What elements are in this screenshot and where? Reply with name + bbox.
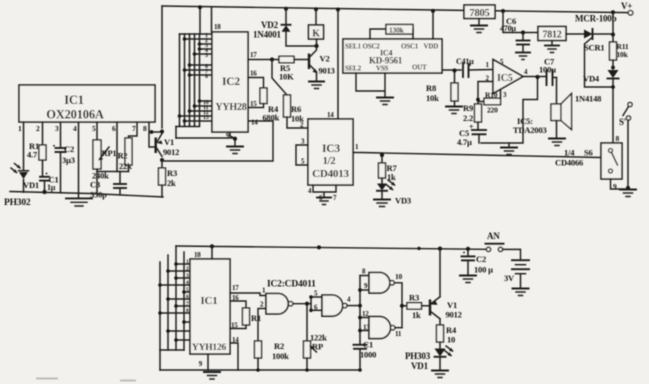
svg-text:3: 3 xyxy=(55,124,59,133)
svg-text:15: 15 xyxy=(250,100,257,108)
wire IC1 pin6 to RC node xyxy=(116,122,118,172)
wire IC1 pin8 to V1 base xyxy=(149,122,155,147)
svg-text:8: 8 xyxy=(616,134,620,143)
IC1 YYH126 (bottom) xyxy=(190,259,230,354)
svg-text:IC1: IC1 xyxy=(64,93,84,107)
resistor R6 10k xyxy=(272,60,308,129)
wire IC1 pin2 to R1 xyxy=(42,122,44,145)
node ties xyxy=(358,288,362,292)
svg-text:S6: S6 xyxy=(584,148,593,158)
wire IC1 pin 14 to ground rail xyxy=(230,343,238,370)
resistor R10 220 xyxy=(478,91,501,115)
svg-text:7812: 7812 xyxy=(542,30,561,41)
gate4 inputs xyxy=(360,310,370,332)
capacitor C3 330p xyxy=(90,172,126,200)
regulator 7805 xyxy=(464,5,495,33)
svg-text:R8: R8 xyxy=(426,83,436,93)
pin numbers of IC1 left (bottom) xyxy=(186,259,189,314)
ground under IC4 VSS xyxy=(377,98,393,105)
wire IC5 pin 2 to R9/R10 node xyxy=(478,82,493,105)
svg-text:K: K xyxy=(312,29,320,40)
svg-text:CD4066: CD4066 xyxy=(555,158,583,168)
svg-text:9012: 9012 xyxy=(163,147,179,157)
pin 3 of IC5 xyxy=(501,90,508,100)
svg-text:R2: R2 xyxy=(118,151,128,161)
node supply/R11 junction xyxy=(611,10,615,14)
svg-text:9013: 9013 xyxy=(319,66,335,76)
ground under R8 xyxy=(446,107,462,114)
svg-text:10k: 10k xyxy=(426,93,439,103)
svg-text:R3: R3 xyxy=(167,168,177,178)
ground on bootstrap line xyxy=(501,143,517,155)
node supply/relay K junction xyxy=(314,7,318,11)
transistor V1 9012 (top circuit) xyxy=(150,130,180,157)
transistor V2 9013 xyxy=(308,46,335,81)
IC3 1/2 CD4013 xyxy=(308,119,353,185)
NAND gate 3 xyxy=(369,273,394,294)
svg-text:220: 220 xyxy=(487,106,498,115)
svg-text:8: 8 xyxy=(186,308,189,314)
node V1 collector feed xyxy=(438,247,442,251)
svg-text:1000: 1000 xyxy=(360,350,376,360)
IC1 OX20106A xyxy=(19,85,155,122)
ground at S6 return xyxy=(620,190,636,197)
node on supply rail right xyxy=(417,247,420,250)
svg-text:S′: S′ xyxy=(619,117,626,127)
svg-text:1µ: 1µ xyxy=(47,183,56,192)
ground rail (bottom circuit) xyxy=(160,369,360,371)
capacitor C6 470u xyxy=(500,16,530,60)
IC1 left pin stubs (bottom) xyxy=(158,262,190,342)
svg-text:4.7: 4.7 xyxy=(27,150,38,160)
svg-text:17: 17 xyxy=(232,284,239,292)
capacitor C2 100u (bottom) xyxy=(460,249,493,283)
resistor R4 10 (bottom) xyxy=(437,325,457,348)
svg-text:7: 7 xyxy=(132,124,136,133)
svg-text:1N4148: 1N4148 xyxy=(575,94,601,104)
wire IC1 pin3 to C2 xyxy=(60,122,62,147)
svg-text:6: 6 xyxy=(186,294,189,300)
svg-text:10: 10 xyxy=(395,272,403,281)
svg-text:R10: R10 xyxy=(485,91,498,100)
bus lines left of IC2 xyxy=(176,34,212,138)
svg-text:PH302: PH302 xyxy=(4,198,31,208)
svg-text:V1: V1 xyxy=(164,137,174,147)
svg-text:OUT: OUT xyxy=(412,64,427,72)
node C6 junction xyxy=(521,30,525,34)
wire emitter net to IC2 pin 14 xyxy=(162,121,273,161)
node K/V2 collector junction xyxy=(314,44,318,48)
svg-text:8: 8 xyxy=(205,74,208,80)
svg-text:SEL1: SEL1 xyxy=(345,43,362,51)
node R3 takeoff xyxy=(400,304,404,308)
wire IC4 VDD to supply xyxy=(432,11,434,39)
LED VD3 xyxy=(377,178,411,206)
resistor R3 2k (top circuit) xyxy=(159,168,178,197)
wire IC5 output bootstrap return xyxy=(481,77,538,143)
wire IC2 pin 17 to R5 xyxy=(248,59,279,61)
wire gate2 output to gates 3/4 xyxy=(347,305,360,307)
IC3 bottom pins 4,6,7 to ground xyxy=(308,185,337,205)
node V1 emitter xyxy=(160,158,164,162)
svg-text:OSC1: OSC1 xyxy=(401,43,419,51)
svg-text:IC1: IC1 xyxy=(200,295,217,307)
node supply/bus junction xyxy=(198,5,202,9)
svg-text:C3: C3 xyxy=(90,180,100,190)
thyristor SCR1 xyxy=(584,29,613,87)
wire supply to 7812 xyxy=(503,11,538,33)
gate2 input tie xyxy=(309,290,322,313)
svg-text:5: 5 xyxy=(205,53,208,59)
svg-text:R9: R9 xyxy=(463,103,473,113)
pin numbers of IC2 left side xyxy=(203,33,209,121)
potentiometer RP1 240k xyxy=(92,140,116,194)
svg-text:SCR1: SCR1 xyxy=(584,43,604,53)
svg-text:C1: C1 xyxy=(363,340,373,350)
svg-text:11: 11 xyxy=(395,330,402,338)
wire gate4 output xyxy=(395,327,402,329)
svg-text:YYH126: YYH126 xyxy=(192,343,227,353)
svg-text:IC2:CD4011: IC2:CD4011 xyxy=(267,280,316,290)
svg-text:3: 3 xyxy=(186,273,189,279)
svg-text:R1: R1 xyxy=(251,313,261,323)
diode VD2 1N4001 xyxy=(253,9,317,46)
svg-text:2.2: 2.2 xyxy=(463,113,473,123)
node supply/VD2 junction xyxy=(284,7,288,11)
svg-text:1: 1 xyxy=(18,124,22,133)
battery 3V xyxy=(504,260,529,295)
regulator 7812 xyxy=(538,27,566,53)
svg-text:IC5: IC5 xyxy=(497,73,513,84)
svg-text:15: 15 xyxy=(231,322,238,330)
node C2 feed xyxy=(466,247,470,251)
svg-text:680k: 680k xyxy=(263,113,280,123)
svg-text:4: 4 xyxy=(186,280,189,286)
svg-text:V2: V2 xyxy=(320,54,330,64)
node on supply rail xyxy=(317,245,321,249)
push button AN xyxy=(486,231,521,260)
node R5/R6 junction xyxy=(270,57,274,61)
node SCR output xyxy=(611,33,615,37)
node gate1 output / RP junction xyxy=(305,302,309,306)
resistor R2 22k xyxy=(118,138,133,172)
node R8 junction xyxy=(452,68,456,72)
svg-text:470µ: 470µ xyxy=(500,24,516,33)
svg-text:100 µ: 100 µ xyxy=(474,265,493,275)
svg-text:1k: 1k xyxy=(412,310,421,320)
wire V+ supply rail (top) xyxy=(162,6,628,13)
resistor R1 (bottom) xyxy=(230,301,261,329)
svg-text:18: 18 xyxy=(194,251,201,259)
IC2 left pin stubs with bus junctions xyxy=(178,37,212,123)
NAND gate 2 xyxy=(322,295,347,316)
svg-text:13: 13 xyxy=(203,115,209,121)
wire IC4 OUT to C4 xyxy=(442,69,461,71)
svg-text:1: 1 xyxy=(186,259,189,265)
IC4 KD-9561 xyxy=(343,39,442,73)
node gate loop junction xyxy=(611,85,615,89)
photodiode VD1 PH302 xyxy=(4,164,39,209)
wire bus feed from supply xyxy=(199,7,201,34)
pin 9 of IC1 bottom to ground rail xyxy=(199,354,208,370)
wire IC1 pin5 to RP1 xyxy=(96,122,98,140)
NAND gate 1 (CD4011) xyxy=(266,294,293,314)
svg-text:R4: R4 xyxy=(446,325,457,335)
svg-text:2: 2 xyxy=(36,124,40,133)
svg-text:MCR-100b: MCR-100b xyxy=(575,14,617,24)
node supply/7812 feed junction xyxy=(501,9,505,13)
ground under VD3 xyxy=(374,200,390,207)
capacitor C5 4.7u xyxy=(457,123,486,148)
wire 3V supply rail (bottom circuit) xyxy=(176,246,486,249)
ground under speaker xyxy=(549,139,565,146)
IC2 YYH28 xyxy=(212,32,248,132)
capacitor C2 3u3 xyxy=(53,144,75,193)
node pin2 net / ground rail xyxy=(42,190,46,194)
svg-text:5: 5 xyxy=(186,287,189,293)
svg-text:IC2: IC2 xyxy=(222,76,240,88)
node R2/rail xyxy=(256,368,260,372)
svg-text:+: + xyxy=(469,123,474,132)
svg-text:1/2: 1/2 xyxy=(323,156,336,167)
resistor R11 10k xyxy=(610,13,629,70)
vertical tie for gate3/gate4 inputs and C1 xyxy=(359,276,361,343)
wire gate1 output to gate2 inputs xyxy=(293,303,311,305)
node IC5 output xyxy=(535,75,539,79)
svg-text:AN: AN xyxy=(487,231,500,241)
svg-text:3V: 3V xyxy=(504,273,515,283)
svg-text:R2: R2 xyxy=(274,341,284,351)
svg-text:8: 8 xyxy=(143,124,147,133)
wire IC4 VSS to ground xyxy=(356,73,385,97)
capacitor C1 1000 (bottom) xyxy=(354,340,377,371)
analog switch S6 1/4 CD4066 xyxy=(601,134,628,191)
node IC1 pin18 junction xyxy=(210,244,214,248)
svg-text:CD4013: CD4013 xyxy=(312,168,349,180)
svg-text:V+: V+ xyxy=(621,1,632,11)
ground symbol below rail xyxy=(66,193,92,206)
svg-text:10K: 10K xyxy=(279,72,294,82)
resistor R3 1k (bottom) xyxy=(402,293,429,321)
speaker xyxy=(551,78,572,139)
svg-text:C2: C2 xyxy=(64,144,74,154)
svg-text:OX20106A: OX20106A xyxy=(46,108,104,122)
svg-text:4: 4 xyxy=(73,124,77,133)
wire IC2 pin 18 to supply xyxy=(211,7,213,32)
svg-text:10: 10 xyxy=(447,335,455,345)
ground under V2 emitter xyxy=(309,82,324,89)
svg-text:1N4001: 1N4001 xyxy=(253,30,281,40)
resistor R4 680k xyxy=(248,78,280,123)
wire IC1 pin4 to ground rail xyxy=(78,122,80,193)
ground under LED VD1 xyxy=(432,371,448,378)
wire ground rail of IC1 section xyxy=(10,192,163,198)
wire RC node horizontal xyxy=(97,171,129,173)
op-amp IC5 TDA2003 xyxy=(493,58,523,94)
relay K xyxy=(309,9,324,46)
svg-text:16: 16 xyxy=(250,70,257,78)
ground under IC2 pin 9 xyxy=(227,147,243,154)
svg-text:C2: C2 xyxy=(476,254,486,264)
node C1/rail xyxy=(358,368,362,372)
svg-text:VDD: VDD xyxy=(424,43,439,51)
svg-text:VSS: VSS xyxy=(376,65,389,73)
resistor R9 2.2 xyxy=(463,98,482,130)
svg-text:10k: 10k xyxy=(617,50,629,59)
svg-text:9012: 9012 xyxy=(446,310,462,320)
potentiometer RP 122k xyxy=(304,304,328,370)
svg-text:VD3: VD3 xyxy=(395,196,411,206)
wire IC1 pin1 to VD1 xyxy=(23,122,25,170)
svg-text:YYH28: YYH28 xyxy=(215,102,246,113)
resistor R7 1k xyxy=(379,155,398,182)
svg-text:17: 17 xyxy=(250,51,257,59)
wire IC5 output to C7 xyxy=(523,76,546,78)
wire 7812 to SCR1 xyxy=(566,33,584,35)
wire IC1 pin 18 to supply rail xyxy=(211,246,213,259)
svg-text:PH303: PH303 xyxy=(405,351,431,361)
svg-text:130k: 130k xyxy=(389,26,405,35)
capacitor C1 1u xyxy=(40,173,59,193)
svg-text:1/4: 1/4 xyxy=(564,148,575,158)
svg-text:5: 5 xyxy=(92,124,96,133)
svg-text:6: 6 xyxy=(112,124,116,133)
svg-text:14: 14 xyxy=(327,111,334,119)
wire left vertical from supply to V1 xyxy=(161,6,163,128)
svg-text:VD2: VD2 xyxy=(261,20,279,30)
resistor R5 10K xyxy=(279,56,308,81)
svg-text:22k: 22k xyxy=(119,161,132,171)
svg-text:C41µ: C41µ xyxy=(456,57,474,66)
svg-text:VD4: VD4 xyxy=(583,74,600,84)
capacitor C7 100u xyxy=(539,57,557,86)
node supply/IC4 VDD junction xyxy=(431,9,435,13)
svg-text:R6: R6 xyxy=(291,104,301,114)
terminal V+ xyxy=(628,11,633,16)
svg-text:7: 7 xyxy=(186,301,189,307)
wire IC3 pin 14 to supply xyxy=(337,10,339,120)
node R11/VD4 xyxy=(611,66,615,70)
svg-text:RP1: RP1 xyxy=(102,148,117,158)
svg-text:VD1: VD1 xyxy=(23,180,39,190)
diode VD4 1N4148 xyxy=(575,70,619,143)
svg-text:SEL2: SEL2 xyxy=(345,65,362,73)
wire IC1 pin7 to R2 xyxy=(129,122,138,138)
wire gate1 pin2 to R2 xyxy=(258,309,266,342)
svg-text:R3: R3 xyxy=(409,293,419,303)
NAND gate 4 xyxy=(369,317,395,339)
svg-text:3µ3: 3µ3 xyxy=(62,155,75,165)
svg-text:2k: 2k xyxy=(167,178,176,188)
resistor R1 4.7 xyxy=(27,141,46,176)
svg-text:100µ: 100µ xyxy=(539,65,556,75)
node S'/S6 return xyxy=(626,186,630,190)
wire V1 emitter to R3 xyxy=(161,160,163,168)
svg-text:18: 18 xyxy=(214,23,221,31)
svg-text:TDA2003: TDA2003 xyxy=(513,125,547,135)
ground symbol on rail xyxy=(204,372,220,379)
svg-text:100k: 100k xyxy=(272,351,289,361)
transistor V1 9012 (bottom) xyxy=(429,249,462,325)
scan smudges bottom edge xyxy=(36,379,136,381)
svg-text:RP: RP xyxy=(312,342,323,352)
gate3 inputs xyxy=(360,268,369,291)
node R7 junction xyxy=(380,153,384,157)
node supply/IC3 pin14 junction xyxy=(336,8,340,12)
svg-text:4.7µ: 4.7µ xyxy=(457,137,472,147)
node V1 collector xyxy=(160,130,164,134)
svg-text:14: 14 xyxy=(251,119,258,127)
svg-text:OSC2: OSC2 xyxy=(363,43,381,51)
LED VD1 PH303 (bottom) xyxy=(405,346,454,371)
capacitor C4 1u xyxy=(456,57,493,77)
svg-text:IC3: IC3 xyxy=(322,143,340,155)
node RP/rail xyxy=(305,368,309,372)
svg-text:V1: V1 xyxy=(447,300,457,310)
switch S' xyxy=(619,102,632,188)
wire IC1 pin 17 to gate 1 xyxy=(230,293,266,296)
svg-text:VD1: VD1 xyxy=(411,361,429,371)
wire gate3 output down xyxy=(394,283,402,328)
wire IC2 pin-9 / bus ground link xyxy=(176,137,235,139)
wire IC2 pin 9 to ground xyxy=(230,132,235,146)
resistor 130k (oscillator) xyxy=(370,25,413,40)
resistor R2 100k (bottom) xyxy=(255,341,290,370)
pin 3 / pin 5 loop of IC3 xyxy=(296,138,308,166)
bus lines left of IC1 (bottom) xyxy=(160,246,184,370)
wire IC3 pin 1 long output line to S6 xyxy=(353,153,601,158)
svg-text:7805: 7805 xyxy=(469,8,489,19)
resistor R8 10k xyxy=(426,71,458,107)
svg-text:2: 2 xyxy=(186,266,189,272)
